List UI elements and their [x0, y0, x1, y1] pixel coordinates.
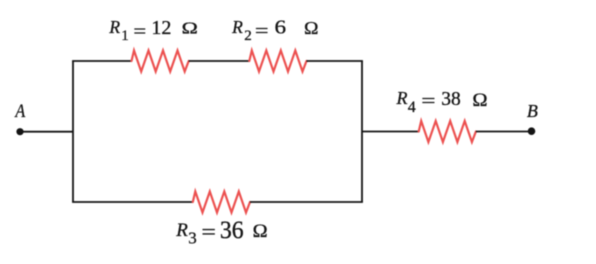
label R1 = 12 Ω [108, 17, 197, 44]
svg-text:4: 4 [408, 99, 416, 116]
svg-text:Ω: Ω [253, 221, 268, 242]
wire: bottom rail, right segment [250, 201, 363, 203]
wire: node A to left rail [20, 131, 73, 133]
svg-text:Ω: Ω [472, 91, 487, 111]
svg-text:3: 3 [188, 228, 197, 247]
svg-text:R: R [108, 17, 120, 37]
svg-text:B: B [527, 101, 538, 121]
svg-text:12: 12 [151, 18, 171, 39]
node A [16, 128, 23, 135]
resistor R2 [249, 51, 306, 72]
svg-text:Ω: Ω [182, 19, 198, 38]
node A label [14, 102, 26, 122]
svg-text:Ω: Ω [304, 18, 319, 38]
wire: top rail, right segment [307, 60, 363, 62]
wire: left rail (vertical) [72, 61, 74, 202]
label R2 = 6 Ω [231, 16, 318, 44]
svg-text:R: R [396, 88, 408, 108]
svg-text:2: 2 [244, 28, 252, 44]
label R4 = 38 Ω [396, 88, 488, 116]
wire: bottom rail, left segment [72, 201, 193, 203]
svg-text:36: 36 [220, 217, 244, 244]
svg-text:1: 1 [121, 28, 129, 44]
label R3 = 36 Ω [175, 217, 268, 247]
svg-text:=: = [201, 220, 216, 244]
svg-text:R: R [175, 220, 188, 241]
resistor R3 [193, 192, 250, 213]
svg-text:38: 38 [441, 88, 461, 110]
svg-text:=: = [421, 91, 435, 113]
svg-text:=: = [255, 21, 269, 42]
svg-text:A: A [14, 102, 26, 122]
svg-text:6: 6 [275, 16, 287, 38]
node B [528, 127, 536, 135]
node B label [527, 101, 538, 121]
wire: top rail, left segment [72, 60, 132, 62]
svg-text:=: = [133, 21, 146, 42]
svg-text:R: R [231, 17, 243, 37]
wire: top rail, middle segment [189, 60, 250, 62]
wire: right rail to R4 [362, 131, 419, 133]
wire: R4 to node B [476, 131, 532, 133]
resistor R4 [419, 121, 476, 142]
resistor R1 [132, 51, 189, 72]
wire: right rail (vertical) [361, 61, 363, 202]
